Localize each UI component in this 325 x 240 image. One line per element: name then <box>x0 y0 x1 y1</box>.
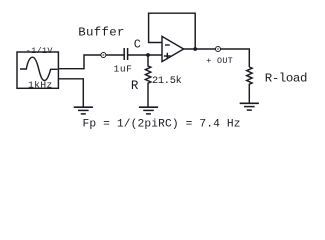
svg-text:1uF: 1uF <box>114 64 133 75</box>
svg-text:R: R <box>131 79 139 93</box>
svg-text:-1/1V: -1/1V <box>26 46 53 56</box>
svg-text:R-load: R-load <box>265 71 308 85</box>
svg-text:1kHz: 1kHz <box>28 79 52 90</box>
svg-text:C: C <box>134 37 141 51</box>
svg-text:+ OUT: + OUT <box>206 56 232 66</box>
svg-text:Fp = 1/(2piRC) = 7.4 Hz: Fp = 1/(2piRC) = 7.4 Hz <box>83 119 241 131</box>
svg-text:21.5k: 21.5k <box>152 75 182 87</box>
svg-text:Buffer: Buffer <box>78 25 124 39</box>
